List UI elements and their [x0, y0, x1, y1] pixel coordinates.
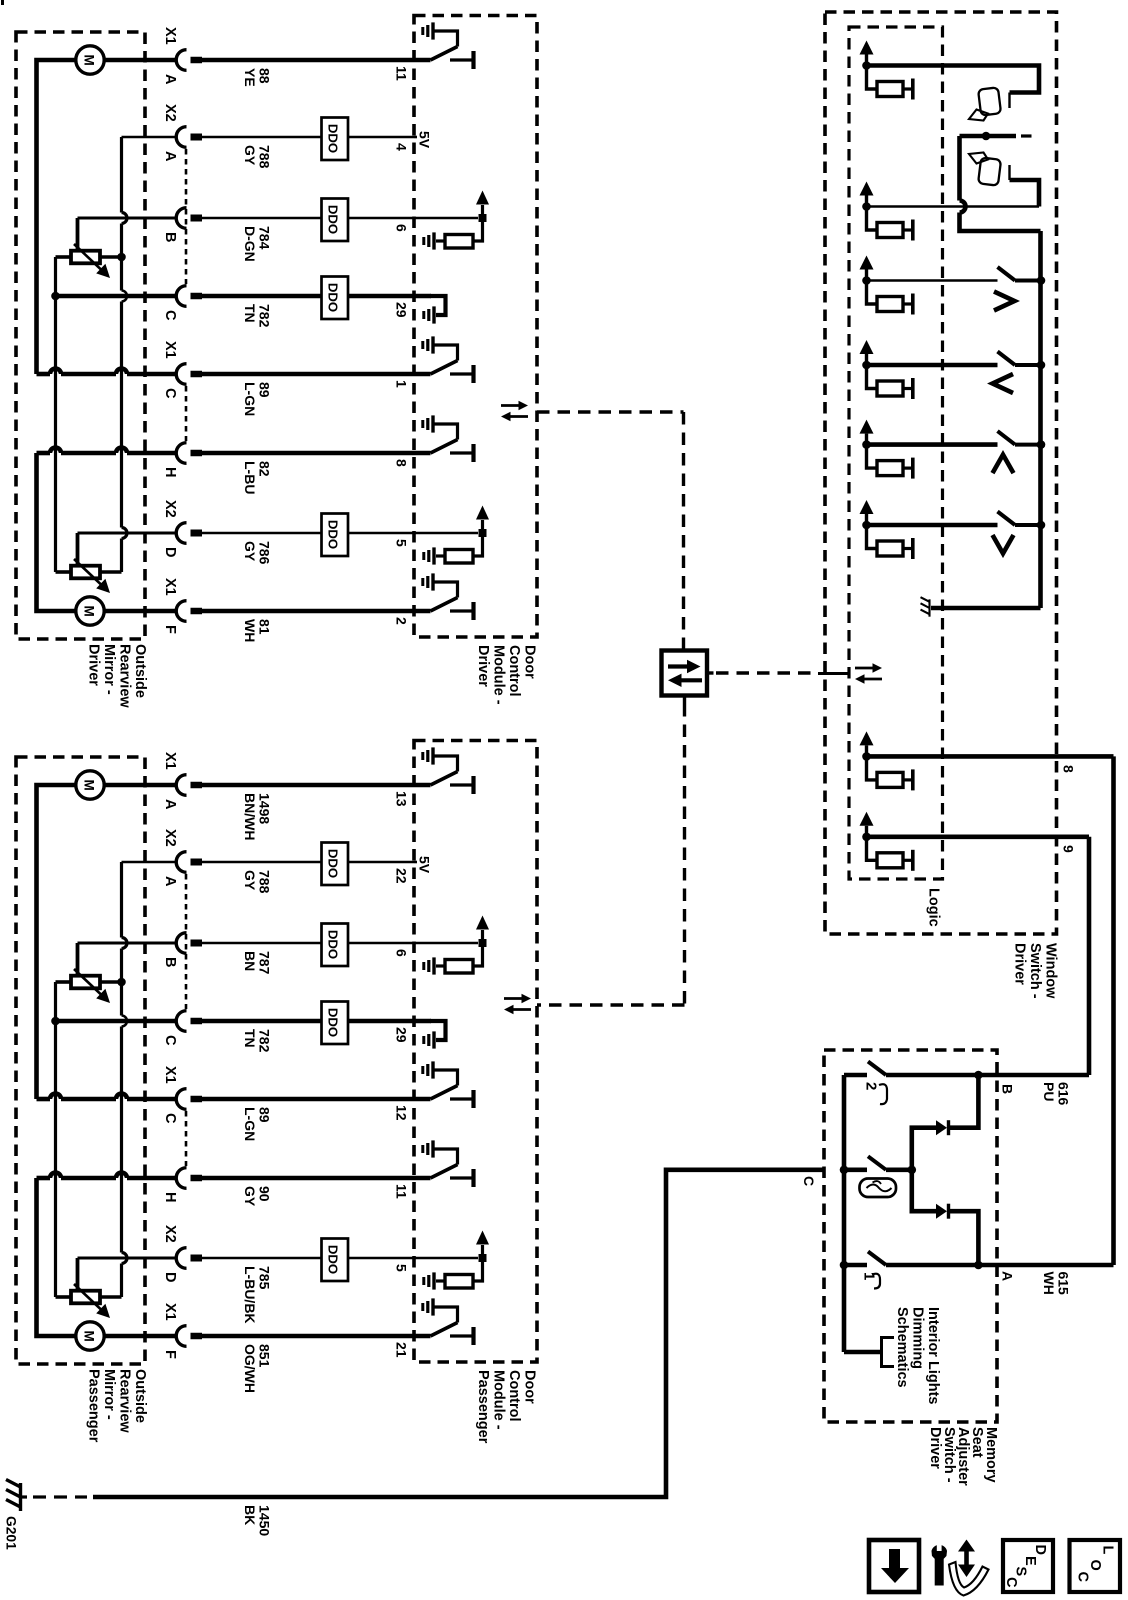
svg-text:TN: TN: [242, 304, 258, 323]
switch blade: [868, 1156, 886, 1170]
diode 1: [912, 1128, 936, 1170]
svg-text:Door: Door: [522, 645, 538, 679]
resistor (logic): [877, 297, 903, 312]
svg-text:X1: X1: [162, 27, 178, 45]
svg-text:X1: X1: [162, 1303, 178, 1321]
switch blade (module driver): [431, 440, 458, 454]
button icon <: [993, 374, 1014, 393]
wire (ground elbow): [433, 345, 458, 361]
wire (ground elbow): [433, 1070, 458, 1086]
wire (motor2 right lead): [105, 1334, 178, 1339]
switch blade: [868, 1252, 886, 1266]
wire (ground elbow): [433, 1149, 458, 1165]
svg-text:6: 6: [394, 224, 410, 232]
svg-text:C: C: [1003, 1577, 1019, 1588]
B+ feed arrow: [865, 745, 868, 756]
svg-text:Rearview: Rearview: [117, 644, 133, 708]
junction: [908, 1166, 917, 1175]
wire (motor2 common bus): [37, 453, 77, 611]
position sensor 1 (driver): [71, 251, 100, 264]
wire (to resistor): [867, 207, 878, 231]
wire (row3 wiper1): [78, 942, 178, 945]
wire (unit1 to select icon 1): [867, 66, 1040, 93]
junction (low ref): [51, 1017, 60, 1026]
resistor (module internal): [445, 1275, 473, 1289]
svg-text:X2: X2: [162, 500, 178, 518]
svg-text:DDO: DDO: [326, 1245, 341, 1274]
wire (row2 5V feed + sensor supply bus): [122, 861, 178, 864]
switch blade: [998, 431, 1016, 445]
wire (to resistor): [867, 281, 878, 305]
wire (row6 mirror side, hops over sensor buses): [37, 1176, 51, 1181]
contact with end bar: [903, 302, 911, 305]
wire (motor1 right lead): [105, 58, 178, 63]
terminal C: [176, 364, 186, 385]
junction: [974, 1261, 983, 1270]
diode 2: [912, 1170, 936, 1211]
terminal B: [176, 208, 186, 229]
wire 785 L-BU/BK: [191, 1255, 203, 1262]
wire (pin 2 internal): [414, 609, 431, 614]
terminal A: [176, 775, 186, 796]
svg-text:D: D: [1032, 1545, 1048, 1555]
wire (low-ref bus to sensor2): [54, 1021, 57, 1297]
node line (select common): [960, 134, 1017, 139]
svg-text:GY: GY: [242, 870, 258, 891]
svg-text:DDO: DDO: [326, 205, 341, 234]
wire (resistor to ground): [436, 964, 445, 967]
contact with end bar: [450, 1176, 472, 1179]
junction: [862, 361, 871, 370]
terminal A: [176, 50, 186, 71]
wire (unit2 and icon2 to node): [867, 205, 1040, 208]
contact with end bar: [450, 372, 472, 375]
wire (pin 11 internal): [414, 1176, 431, 1181]
svg-text:F: F: [162, 625, 178, 634]
svg-text:F: F: [162, 1350, 178, 1359]
wire B to 616 PU: [978, 1073, 1089, 1078]
wire 88 YE: [191, 57, 203, 64]
serial data arrows: [501, 404, 519, 407]
wire (pin 6 internal): [414, 217, 478, 220]
svg-text:4: 4: [394, 143, 410, 151]
ground (module internal): [431, 1061, 434, 1078]
wire (pin 11 internal): [414, 58, 431, 63]
5V supply label: [414, 136, 417, 139]
svg-text:D: D: [162, 1272, 178, 1282]
svg-text:M: M: [81, 55, 96, 66]
svg-text:Control: Control: [506, 1370, 522, 1422]
wire (logic unit 4 to switch): [867, 363, 998, 368]
ground (module internal): [432, 547, 435, 564]
junction: [862, 61, 871, 70]
wire (pin 21 internal): [414, 1334, 431, 1339]
svg-text:5: 5: [394, 539, 410, 547]
wire (resistor to ground): [436, 1279, 445, 1282]
svg-text:GY: GY: [242, 145, 258, 166]
svg-text:X2: X2: [162, 1225, 178, 1243]
wire (row3 wiper1): [78, 217, 178, 220]
contact with end bar: [450, 58, 472, 61]
svg-text:YE: YE: [242, 68, 258, 87]
contact with end bar: [903, 778, 911, 781]
svg-text:L-BU: L-BU: [242, 461, 258, 494]
wire 782 TN: [191, 1018, 203, 1025]
svg-text:1: 1: [394, 380, 410, 388]
svg-text:Door: Door: [522, 1370, 538, 1404]
set (car) icon: [860, 1179, 897, 1198]
mirror select icon 2: [978, 157, 1001, 185]
svg-text:D-GN: D-GN: [242, 226, 258, 262]
ground (module internal): [431, 1298, 434, 1315]
motor M2 (passenger mirror vertical): [76, 1322, 104, 1350]
svg-text:9: 9: [1061, 845, 1077, 853]
wire (pin 5 internal): [414, 1257, 478, 1260]
wire 1450 BK: [93, 1170, 824, 1497]
wire (pin 12 internal): [414, 1097, 431, 1102]
outside rearview mirror box - driver: [16, 32, 145, 639]
button icon >: [994, 292, 1015, 311]
svg-text:2: 2: [863, 1082, 880, 1090]
ground (module internal): [432, 306, 435, 323]
junction: [862, 440, 871, 449]
svg-text:29: 29: [394, 302, 410, 318]
wire (logic unit 6 to switch): [867, 523, 998, 528]
mirror select icon 1: [978, 87, 1001, 115]
contact with end bar: [450, 1097, 472, 1100]
contact with end bar: [903, 87, 911, 90]
wire (row6 mirror side, hops over sensor buses): [37, 451, 51, 456]
svg-text:GY: GY: [242, 541, 258, 562]
wire (contact to bus): [1015, 523, 1041, 527]
ground (module internal): [432, 1031, 435, 1048]
wire (ground elbow): [433, 1307, 458, 1323]
wire (ground hook): [430, 296, 446, 315]
switch blade: [998, 267, 1016, 281]
svg-text:WH: WH: [242, 619, 258, 642]
svg-text:Rearview: Rearview: [117, 1369, 133, 1433]
memory 2 switch: [844, 1073, 867, 1078]
wire 89 L-GN mirror side (row5, hops over sensor buses): [37, 1097, 51, 1102]
wire A to 615 WH: [978, 1263, 1113, 1268]
wire 615 WH vertical: [1111, 756, 1116, 1265]
resistor (module internal): [445, 235, 473, 249]
svg-text:Module -: Module -: [491, 1370, 507, 1430]
wire (pin 5 internal): [414, 532, 478, 535]
wire (pin 1 internal): [414, 372, 431, 377]
junction: [982, 132, 991, 141]
wire (resistor to ground): [436, 239, 445, 242]
wire (pin 6 internal): [414, 942, 478, 945]
switch blade (module driver): [431, 772, 458, 786]
serial data arrows: [855, 667, 873, 670]
terminal B: [176, 933, 186, 954]
ground (module internal): [431, 22, 434, 39]
wire 82 L-BU: [191, 450, 203, 457]
svg-text:Switch -: Switch -: [1027, 943, 1043, 999]
terminal C: [176, 286, 186, 307]
button icon v: [993, 535, 1014, 554]
terminal D: [176, 1248, 186, 1269]
svg-text:Driver: Driver: [1012, 943, 1028, 985]
motor M1 (passenger mirror horizontal): [76, 771, 104, 799]
ground (module internal): [431, 747, 434, 764]
window switch box - driver: [825, 12, 1057, 934]
svg-text:OG/WH: OG/WH: [242, 1344, 258, 1393]
svg-text:12: 12: [394, 1105, 410, 1121]
dashed link DCM passenger to center box: [683, 696, 686, 705]
nav icon: DESC box: [1003, 1540, 1053, 1592]
terminal A: [176, 852, 186, 873]
wire 788 GY: [191, 859, 203, 866]
svg-text:M: M: [81, 606, 96, 617]
wire (to resistor): [473, 533, 483, 556]
inline label DDO: [322, 199, 349, 242]
wire (pin 9 - 616 PU feed): [867, 834, 1090, 839]
svg-text:L-BU/BK: L-BU/BK: [242, 1266, 258, 1324]
terminal F: [176, 1326, 186, 1347]
terminal A: [176, 127, 186, 148]
wire (motor1 left lead + common bus down to row5): [37, 60, 77, 374]
svg-text:Mirror -: Mirror -: [101, 644, 117, 695]
set switch (C): [840, 1166, 849, 1175]
contact with end bar: [450, 783, 472, 786]
wire (sensor2 low lead): [56, 1295, 72, 1299]
wire (ground elbow): [433, 756, 458, 772]
svg-text:L-GN: L-GN: [242, 382, 258, 416]
wire 89 L-GN: [191, 371, 203, 378]
switch blade: [998, 352, 1016, 366]
junction on bus: [1037, 521, 1046, 530]
switch blade (module driver): [431, 1323, 458, 1337]
svg-text:DDO: DDO: [326, 1008, 341, 1037]
svg-text:Outside: Outside: [132, 644, 148, 698]
svg-text:L-GN: L-GN: [242, 1107, 258, 1141]
B+ feed arrow: [865, 826, 868, 837]
wire (pin 13 internal): [414, 783, 431, 788]
svg-text:M: M: [81, 780, 96, 791]
ground (module internal): [432, 1272, 435, 1289]
svg-text:C: C: [162, 1035, 178, 1046]
5V supply label: [414, 861, 417, 864]
wire (to resistor): [473, 1258, 483, 1281]
svg-text:X2: X2: [162, 829, 178, 847]
resistor (logic): [877, 461, 903, 476]
junction: [862, 833, 871, 842]
svg-text:Window: Window: [1043, 943, 1059, 999]
svg-text:O: O: [1087, 1560, 1103, 1571]
wire (sensor1 supply lead): [100, 980, 122, 984]
svg-text:X1: X1: [162, 341, 178, 359]
wire (contact to bus): [1015, 443, 1041, 447]
resistor (logic): [877, 772, 903, 787]
svg-text:DDO: DDO: [326, 283, 341, 312]
resistor (logic): [877, 381, 903, 396]
wire 89 L-GN: [191, 1096, 203, 1103]
wire (sensor1 low lead + low-ref bus): [56, 980, 72, 984]
B+ feed arrow: [481, 930, 484, 943]
svg-text:D: D: [162, 547, 178, 557]
data link connector box (center): [662, 651, 708, 696]
wire (to resistor): [473, 943, 483, 966]
outside rearview mirror box - passenger: [16, 757, 145, 1364]
svg-text:BN: BN: [242, 951, 258, 971]
contact with end bar: [903, 228, 911, 231]
dashed stub: [1021, 134, 1032, 137]
contact with end bar: [450, 451, 472, 454]
B+ feed arrow: [865, 434, 868, 445]
svg-text:X1: X1: [162, 578, 178, 596]
contact with end bar: [903, 859, 911, 862]
wire (motor2 right lead): [105, 609, 178, 614]
svg-text:TN: TN: [242, 1029, 258, 1048]
motor M1 (driver mirror horizontal): [76, 46, 104, 74]
junction: [479, 214, 487, 222]
wire (switch common bus): [842, 1075, 847, 1352]
svg-text:B: B: [1000, 1084, 1016, 1094]
inline label DDO: [322, 118, 349, 161]
wire (ground elbow): [433, 424, 458, 440]
wire 788 GY: [191, 134, 203, 141]
contact with end bar: [903, 467, 911, 470]
wire (pin 8 - 615 WH feed): [867, 754, 1114, 759]
wire 782 TN: [191, 293, 203, 300]
logic box: [849, 27, 943, 879]
svg-text:Driver: Driver: [927, 1427, 943, 1469]
terminal C: [176, 1089, 186, 1110]
position sensor 2 (passenger): [71, 1291, 100, 1304]
svg-text:11: 11: [394, 66, 410, 81]
junction: [479, 939, 487, 947]
svg-text:13: 13: [394, 791, 410, 807]
memory seat adjuster switch box - driver: [824, 1050, 997, 1422]
memory 1 switch: [840, 1261, 849, 1270]
wire (to resistor): [867, 66, 878, 90]
junction: [862, 276, 871, 285]
B+ feed arrow: [481, 205, 484, 218]
inline label DDO: [322, 924, 349, 967]
door control module box - driver: [414, 16, 537, 638]
inline label DDO: [322, 514, 349, 557]
wire (logic unit 3 to switch): [867, 279, 998, 282]
resistor (logic): [877, 82, 903, 97]
svg-text:H: H: [162, 467, 178, 477]
svg-text:Interior Lights: Interior Lights: [925, 1307, 941, 1404]
ground (module internal): [431, 336, 434, 353]
ground (module internal): [432, 232, 435, 249]
wire (bus to ground): [931, 606, 1041, 611]
wire (logic unit 5 to switch): [867, 442, 998, 447]
svg-text:A: A: [162, 799, 178, 810]
svg-text:Mirror -: Mirror -: [101, 1369, 117, 1420]
svg-text:BN/WH: BN/WH: [242, 793, 258, 840]
inline label DDO: [322, 1239, 349, 1282]
svg-text:M: M: [81, 1331, 96, 1342]
wire (motor1 left lead + common bus down to row5): [37, 785, 77, 1099]
junction: [862, 521, 871, 530]
wire (contact to bus): [1015, 363, 1041, 367]
ground (module internal): [431, 573, 434, 590]
wire (pin 29 internal): [414, 1019, 431, 1024]
junction on bus: [1037, 440, 1046, 449]
inline label DDO: [322, 843, 349, 886]
switch blade (module driver): [431, 47, 458, 61]
wire (node to contact bus, hops over unit2 wire): [957, 136, 962, 201]
inline label DDO: [322, 277, 349, 320]
dashed link DCM driver to center box: [537, 410, 684, 413]
svg-text:Schematics: Schematics: [894, 1307, 910, 1388]
ground (module internal): [432, 957, 435, 974]
junction: [862, 202, 871, 211]
svg-text:DDO: DDO: [326, 124, 341, 153]
wire (to resistor): [867, 837, 878, 861]
svg-text:5: 5: [394, 1264, 410, 1272]
svg-text:BK: BK: [242, 1505, 258, 1525]
chassis ground G201: [19, 1483, 22, 1511]
resistor (module internal): [445, 960, 473, 974]
svg-text:21: 21: [394, 1342, 410, 1358]
B+ feed arrow: [481, 1245, 484, 1258]
contact with end bar: [903, 547, 911, 550]
resistor (module internal): [445, 550, 473, 564]
wire (to resistor): [867, 756, 878, 780]
wire (sensor2 supply lead): [100, 1295, 122, 1299]
wire (to resistor): [867, 365, 878, 389]
svg-text:5V: 5V: [417, 131, 433, 149]
svg-text:Logic: Logic: [926, 888, 942, 927]
B+ feed arrow: [865, 55, 868, 66]
wire (row7 wiper2): [78, 532, 178, 535]
wire (sensor2 supply lead): [100, 570, 122, 574]
position sensor 1 (passenger): [71, 976, 100, 989]
svg-text:B: B: [162, 232, 178, 242]
reference bracket: [882, 1338, 895, 1367]
svg-text:A: A: [162, 151, 178, 162]
terminal D: [176, 523, 186, 544]
wire (motor2 common bus): [37, 1178, 77, 1336]
wire (ground elbow): [433, 582, 458, 598]
chassis ground (window switch): [928, 599, 930, 616]
inline label DDO: [322, 1002, 349, 1045]
svg-text:22: 22: [394, 868, 410, 884]
connector bracket X1 dashed: [185, 386, 188, 441]
wire 1450 BK (dashed at ground): [21, 1495, 27, 1498]
terminal H: [176, 1168, 186, 1189]
wire 90 GY: [191, 1175, 203, 1182]
door control module box - passenger: [414, 741, 537, 1363]
contact with end bar: [903, 387, 911, 390]
svg-text:Module -: Module -: [491, 645, 507, 705]
switch blade (module driver): [431, 361, 458, 375]
wire 787 BN: [191, 940, 203, 947]
svg-text:Dimming: Dimming: [910, 1307, 926, 1369]
svg-text:DDO: DDO: [326, 930, 341, 959]
junction (low ref): [51, 292, 60, 301]
resistor (logic): [877, 541, 903, 556]
svg-text:8: 8: [394, 459, 410, 467]
motor M2 (driver mirror vertical): [76, 597, 104, 625]
junction: [974, 1071, 983, 1080]
switch blade: [868, 1062, 886, 1076]
contact with end bar: [450, 609, 472, 612]
svg-text:6: 6: [394, 949, 410, 957]
wire (contact to bus): [1015, 279, 1041, 283]
B+ feed arrow: [865, 514, 868, 525]
junction: [479, 529, 487, 537]
svg-text:Driver: Driver: [475, 645, 491, 687]
svg-text:29: 29: [394, 1027, 410, 1043]
wire (motor1 right lead): [105, 783, 178, 788]
